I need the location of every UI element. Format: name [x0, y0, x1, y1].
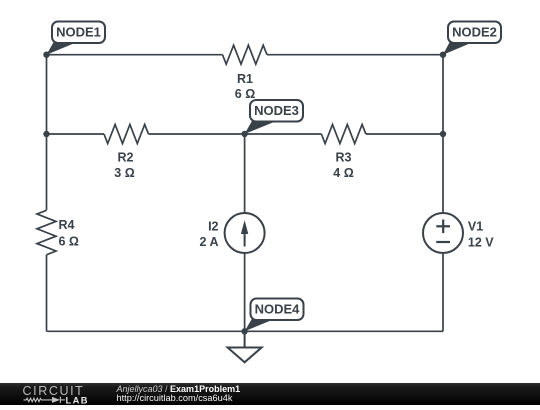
- junction dot NODE3: [241, 131, 247, 137]
- svg-text:NODE3: NODE3: [254, 103, 299, 118]
- wire right rail lower: [442, 253, 444, 331]
- svg-text:R1: R1: [237, 72, 253, 86]
- voltage source V1: [423, 213, 463, 253]
- svg-text:V1: V1: [468, 220, 483, 234]
- resistor R4: [37, 210, 56, 255]
- wire middle horizontal segment 1: [47, 133, 105, 135]
- wire middle horizontal segment 2: [149, 133, 322, 135]
- value label V1: [468, 220, 494, 250]
- svg-text:6 Ω: 6 Ω: [59, 235, 79, 249]
- svg-text:2 A: 2 A: [200, 235, 219, 249]
- value label R3: [333, 151, 353, 181]
- svg-text:6 Ω: 6 Ω: [235, 87, 255, 101]
- junction dot right rail / middle wire: [440, 131, 446, 137]
- resistor R3: [321, 125, 366, 144]
- logo zigzag and diode: [24, 397, 66, 403]
- logo diode triangle: [52, 397, 60, 403]
- value label I2: [200, 220, 219, 250]
- wire middle rail upper: [244, 134, 246, 213]
- node NODE1 label: [47, 22, 106, 55]
- wire right rail upper: [442, 55, 444, 213]
- resistor R2: [104, 125, 149, 144]
- svg-text:NODE4: NODE4: [255, 302, 301, 317]
- value label R2: [114, 151, 134, 181]
- node NODE2 label: [443, 22, 501, 55]
- svg-text:R4: R4: [59, 218, 75, 232]
- value label R1: [235, 72, 255, 101]
- svg-text:R3: R3: [336, 151, 352, 165]
- wire middle horizontal segment 3: [366, 133, 443, 135]
- wire left rail lower: [46, 255, 48, 331]
- wire left rail upper: [46, 55, 48, 211]
- svg-text:NODE2: NODE2: [452, 25, 497, 40]
- value label R4: [59, 218, 79, 249]
- junction dot NODE4: [241, 328, 247, 334]
- wire middle rail lower: [244, 253, 246, 331]
- wire top horizontal right segment: [267, 54, 443, 56]
- node NODE3 label: [245, 100, 303, 134]
- wire bottom horizontal: [47, 330, 444, 332]
- node NODE4 label: [245, 299, 304, 332]
- junction dot NODE2: [440, 52, 446, 58]
- wire top horizontal left segment: [47, 54, 223, 56]
- junction dot NODE1: [43, 52, 49, 58]
- svg-text:http://circuitlab.com/csa6u4k: http://circuitlab.com/csa6u4k: [117, 393, 233, 403]
- svg-text:LAB: LAB: [66, 395, 89, 405]
- svg-text:4 Ω: 4 Ω: [333, 166, 353, 180]
- current source I2: [225, 213, 265, 253]
- svg-text:NODE1: NODE1: [56, 25, 101, 40]
- svg-text:12 V: 12 V: [468, 236, 494, 250]
- junction dot left rail / middle wire: [43, 131, 49, 137]
- resistor R1: [223, 45, 268, 64]
- svg-text:R2: R2: [118, 151, 134, 165]
- svg-text:I2: I2: [208, 220, 218, 234]
- footer bar: [0, 383, 540, 405]
- ground: [228, 331, 262, 362]
- svg-text:3 Ω: 3 Ω: [114, 166, 134, 180]
